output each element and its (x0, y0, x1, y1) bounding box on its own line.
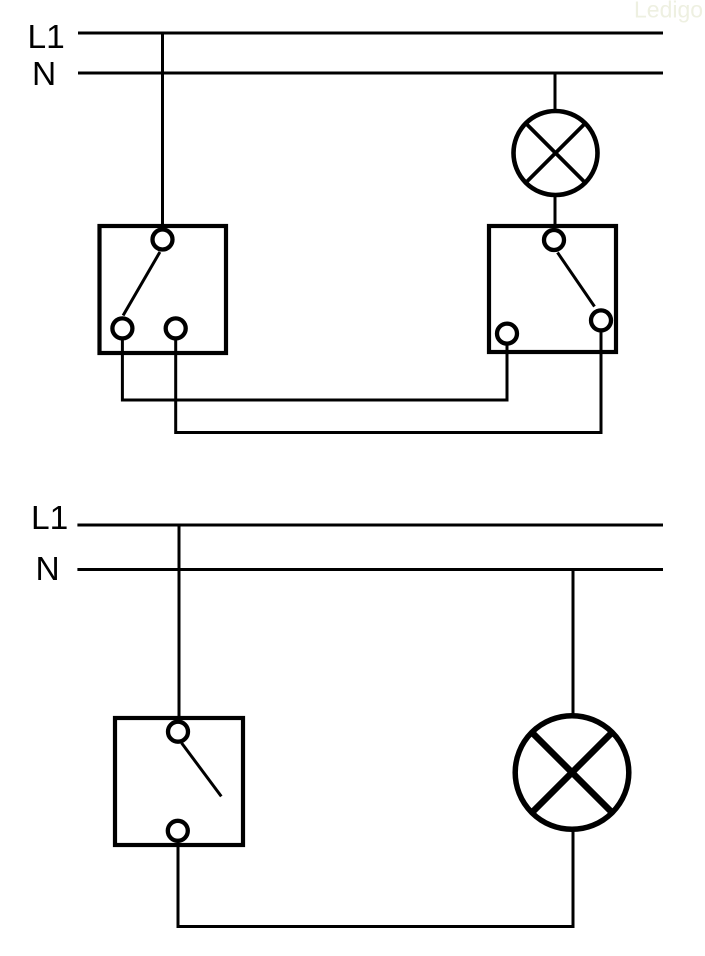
lamp E1 (514, 111, 598, 195)
wire from switch S3 bottom to lamp E2 bottom (178, 830, 573, 927)
switch S3 top terminal (168, 722, 188, 742)
lamp E2 (515, 716, 629, 830)
svg-text:L1: L1 (31, 500, 68, 537)
svg-text:N: N (32, 56, 56, 93)
switch S1 box (100, 226, 227, 353)
svg-text:L1: L1 (28, 19, 65, 56)
wire L1 line (bottom diagram) (77, 524, 663, 527)
switch S1 bottom-right terminal (166, 318, 186, 338)
wire from lamp E1 to switch S2 top terminal (554, 195, 557, 227)
wire traveller 1 (S1 bottom-left to S2 bottom-left) (122, 339, 507, 400)
switch S1 lever (123, 252, 160, 316)
switch S3 bottom terminal (168, 821, 188, 841)
switch S2 bottom-right terminal (591, 310, 611, 330)
switch S3 lever (182, 743, 222, 796)
wire from L1 to switch S1 top terminal (161, 33, 164, 229)
switch S2 top terminal (544, 230, 564, 250)
switch S2 box (489, 226, 616, 352)
wire L1 line (top diagram) (78, 32, 663, 35)
wire N line (top diagram) (78, 72, 663, 75)
svg-text:Ledigo: Ledigo (634, 0, 703, 23)
wire from N to lamp E2 (572, 570, 575, 716)
svg-text:N: N (36, 551, 60, 588)
switch S1 bottom-left terminal (112, 318, 132, 338)
switch S3 box (115, 718, 243, 845)
wire N line (bottom diagram) (77, 568, 663, 571)
switch S2 bottom-left terminal (497, 324, 517, 344)
wire traveller 2 (S1 bottom-right to S2 bottom-right) (176, 332, 601, 433)
switch S1 top terminal (153, 230, 173, 250)
wire from L1 to switch S3 top terminal (178, 525, 181, 721)
switch S2 lever (558, 253, 595, 307)
wire from N to lamp E1 (554, 73, 557, 112)
